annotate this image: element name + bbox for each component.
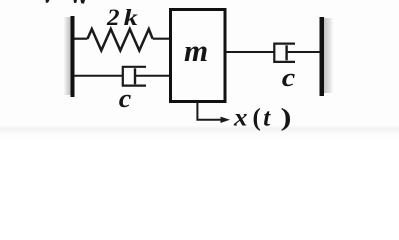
- spring 2k right lead: [153, 38, 171, 40]
- spring 2k zigzag: [88, 29, 153, 51]
- svg-text:x(t): x(t): [233, 105, 292, 132]
- cropped text remnants top edge: [46, 0, 50, 3]
- left wall: [71, 16, 75, 97]
- right wall hatch shade: [324, 18, 334, 93]
- displacement arrow head: [221, 117, 231, 123]
- svg-text:m: m: [184, 33, 208, 68]
- damper c (right) rod to wall: [287, 51, 320, 53]
- spring 2k left lead: [75, 38, 88, 40]
- svg-text:c: c: [282, 63, 296, 92]
- mass m block: [171, 10, 226, 102]
- damper c (left) piston: [134, 68, 136, 84]
- damper c (right) piston: [285, 45, 287, 60]
- damper c (right) cylinder: [274, 44, 295, 62]
- right wall: [320, 17, 325, 96]
- faint bottom band: [0, 125, 399, 134]
- damper c (left) cylinder: [123, 67, 146, 86]
- left wall hatch shade: [64, 17, 71, 95]
- svg-text:c: c: [119, 84, 132, 113]
- damper c (left) rod to mass: [135, 75, 171, 77]
- damper c (left) lead from wall: [75, 75, 123, 77]
- displacement arrow x(t) stem: [197, 102, 221, 120]
- damper c (right) lead from mass: [225, 51, 274, 53]
